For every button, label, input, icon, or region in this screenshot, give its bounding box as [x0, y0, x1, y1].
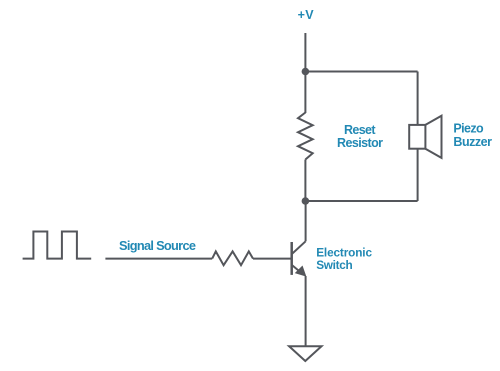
wire from reset resistor bottom to node B — [304, 160, 306, 202]
svg-text:Buzzer: Buzzer — [453, 135, 492, 149]
transistor Q1 (NPN, Electronic Switch) — [292, 241, 306, 276]
svg-text:Piezo: Piezo — [453, 122, 484, 136]
svg-text:Resistor: Resistor — [337, 136, 383, 150]
resistor R1 (Reset Resistor, vertical zigzag) — [298, 113, 313, 160]
wire from top corner down to piezo buzzer — [417, 72, 419, 125]
label Piezo Buzzer — [453, 122, 492, 149]
svg-text:Signal Source: Signal Source — [119, 238, 196, 253]
resistor R2 (base resistor, horizontal zigzag) — [212, 251, 253, 265]
node A (junction dot) — [302, 68, 310, 76]
signal source waveform (square wave) — [23, 232, 92, 259]
node +V label — [298, 8, 315, 22]
wire from +V down to node A — [304, 33, 306, 72]
node B (junction dot) — [302, 197, 310, 205]
svg-text:+V: +V — [298, 8, 315, 22]
wire from collector up to node B — [305, 201, 307, 241]
wire from node A right to buzzer branch top corner — [305, 71, 417, 73]
wire from bottom corner left to node B — [305, 200, 417, 202]
ground symbol — [289, 346, 321, 361]
svg-text:Reset: Reset — [344, 123, 376, 137]
label Electronic Switch — [316, 246, 372, 272]
piezo buzzer BZ1 (speaker symbol: square + horn) — [409, 116, 441, 158]
wire from signal source to base resistor — [105, 258, 212, 260]
wire from emitter down to ground — [305, 276, 307, 346]
label Reset Resistor — [337, 123, 383, 150]
wire from buzzer bottom down to bottom corner — [417, 149, 419, 201]
svg-text:Switch: Switch — [316, 258, 353, 272]
wire from base resistor to transistor base — [253, 258, 292, 260]
wire from node A down to reset resistor top — [304, 72, 306, 114]
